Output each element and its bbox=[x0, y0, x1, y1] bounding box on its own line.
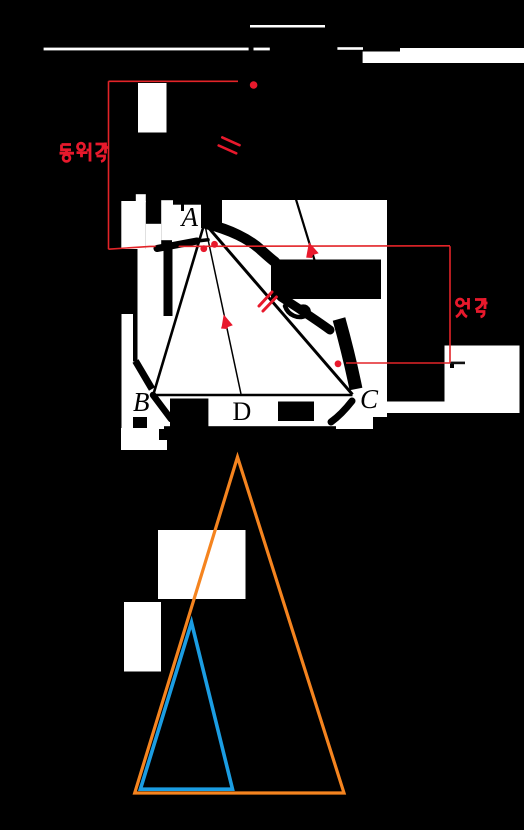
white under black hole bbox=[146, 224, 161, 249]
svg-text:A: A bbox=[180, 202, 199, 232]
white underline right segment bbox=[337, 47, 363, 50]
red dot top bbox=[250, 81, 258, 89]
red box line horizontal top bbox=[109, 80, 239, 82]
cevian AD bbox=[205, 223, 242, 394]
black hook below B bbox=[153, 395, 171, 419]
red horizontal line bottom right bbox=[346, 362, 450, 364]
black hook below C bbox=[331, 401, 352, 422]
black marker dash below-left of A bbox=[157, 241, 197, 249]
white column mid-left bbox=[138, 249, 164, 312]
black tick in band bbox=[181, 204, 184, 211]
black curl squiggle bbox=[285, 306, 309, 317]
triangle base BC bbox=[154, 394, 353, 397]
red korean text 동위각 bbox=[60, 143, 109, 162]
white notch above band bbox=[136, 194, 146, 202]
white underline short mid bbox=[254, 48, 270, 51]
black thick stroke from apex right bbox=[207, 224, 275, 262]
white rect bottom right of figure bbox=[445, 346, 520, 414]
white rect bottom figure big bbox=[158, 530, 246, 599]
red box line vertical left bbox=[108, 81, 110, 249]
black marker dash thin extension bbox=[197, 240, 208, 241]
black bar left of AB lower bbox=[133, 314, 138, 362]
white underline top center bbox=[250, 25, 325, 28]
black tick at red line end bbox=[450, 362, 465, 368]
triangle side AC bbox=[205, 223, 353, 395]
black bar left of AB upper bbox=[164, 247, 173, 316]
white underline long left bbox=[44, 48, 249, 51]
white band mid part bbox=[161, 200, 173, 240]
white figure blob main bbox=[133, 200, 387, 429]
white box taller right part bbox=[400, 48, 524, 52]
red arrow on extra line bbox=[306, 242, 319, 258]
triangle side AB bbox=[154, 223, 205, 394]
red double slash on AC bbox=[259, 292, 276, 311]
red horizontal line mid bbox=[109, 246, 451, 249]
black thick diagonal to B bbox=[136, 361, 153, 389]
black scribble below base mid bbox=[278, 402, 314, 422]
white box small tall top bbox=[138, 83, 167, 133]
black scribble below base left bbox=[170, 399, 208, 427]
white band left part down to red line bbox=[121, 201, 146, 249]
black thick stroke along AC right upper bbox=[281, 297, 330, 330]
black dash overlap over red line bbox=[158, 245, 176, 248]
black thick band along AC right lower bbox=[339, 319, 356, 389]
svg-text:C: C bbox=[360, 384, 379, 414]
svg-text:B: B bbox=[133, 387, 150, 417]
red dot near apex 2 bbox=[211, 241, 218, 248]
white rect above bottom figure bbox=[121, 428, 167, 450]
white band connecting right bbox=[387, 402, 445, 414]
orange triangle bbox=[135, 457, 344, 793]
red double slash upper (parallel mark) bbox=[219, 137, 240, 153]
svg-text:D: D bbox=[233, 397, 252, 426]
white rect bottom figure small bbox=[124, 602, 161, 672]
red dot right bbox=[335, 360, 342, 367]
black scribble rect mid bbox=[271, 260, 381, 300]
blue triangle bbox=[140, 622, 232, 789]
extra line through arrow bbox=[293, 189, 315, 261]
white highlight box top right bbox=[363, 52, 524, 64]
red arrow on AD bbox=[221, 315, 233, 330]
red dot near apex 1 bbox=[200, 245, 207, 252]
red vertical line right bbox=[449, 246, 451, 363]
white band under-A part bbox=[173, 205, 201, 229]
red korean text 엇각 bbox=[456, 298, 488, 317]
black bottom bar below base bbox=[164, 426, 336, 441]
white column far-left lower bbox=[122, 314, 134, 430]
